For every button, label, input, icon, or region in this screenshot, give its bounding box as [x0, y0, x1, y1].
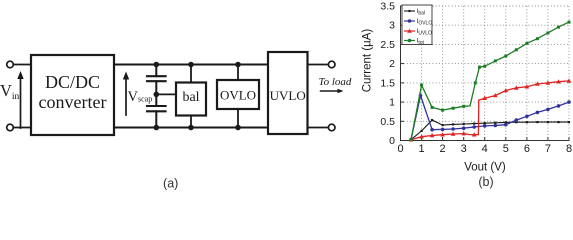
svg-text:4: 4	[482, 143, 488, 155]
svg-text:2: 2	[389, 58, 395, 70]
Vscap arrow	[125, 78, 127, 115]
svg-text:converter: converter	[39, 92, 107, 112]
svg-text:DC/DC: DC/DC	[45, 72, 100, 92]
node OVLO bottom	[235, 125, 241, 131]
svg-text:0.5: 0.5	[380, 116, 395, 128]
node OVLO top	[235, 62, 241, 68]
svg-text:1: 1	[389, 97, 395, 109]
svg-text:(b): (b)	[478, 175, 493, 189]
chart tick labels	[397, 143, 572, 155]
svg-text:(a): (a)	[163, 177, 178, 191]
wire bal stub top	[190, 65, 192, 83]
wire cap midpoint to bal	[156, 93, 176, 95]
svg-text:2.5: 2.5	[380, 39, 395, 51]
svg-text:Current (µA): Current (µA)	[362, 29, 374, 93]
chart axes	[400, 6, 402, 142]
wire output bottom	[308, 127, 328, 129]
curve I_tot (green)	[410, 21, 571, 142]
curve I_bal (black)	[411, 119, 570, 140]
wire OVLO stub bottom	[237, 109, 239, 128]
svg-text:5: 5	[503, 143, 509, 155]
wire OVLO stub top	[237, 65, 239, 81]
UVLO block	[268, 52, 308, 134]
bal block	[176, 83, 206, 116]
svg-text:3: 3	[389, 20, 395, 32]
svg-text:2: 2	[440, 143, 446, 155]
DC/DC converter block	[31, 55, 114, 135]
node cap bottom	[154, 125, 160, 131]
svg-text:6: 6	[524, 143, 530, 155]
svg-text:3: 3	[461, 143, 467, 155]
input terminal top	[7, 61, 14, 68]
node bal bottom	[188, 125, 194, 131]
node cap mid	[154, 92, 160, 98]
Vin arrow	[20, 78, 22, 129]
svg-text:7: 7	[545, 143, 551, 155]
node bal top	[188, 62, 194, 68]
capacitor C2 (bottom supercap)	[147, 105, 166, 107]
svg-text:Vscap: Vscap	[128, 89, 153, 105]
svg-text:3.5: 3.5	[380, 1, 395, 13]
input terminal bottom	[7, 124, 14, 131]
svg-text:To load: To load	[319, 76, 352, 88]
chart grid	[401, 6, 570, 141]
svg-text:0: 0	[397, 143, 403, 155]
svg-text:1: 1	[419, 143, 425, 155]
legend	[402, 5, 432, 46]
svg-text:Vin: Vin	[0, 81, 20, 102]
curve I_OVLO (blue)	[409, 94, 571, 142]
svg-text:8: 8	[566, 143, 572, 155]
To load arrow	[321, 90, 340, 92]
wire bal stub bottom	[190, 116, 192, 128]
svg-text:OVLO: OVLO	[220, 88, 256, 103]
svg-text:Vout (V): Vout (V)	[464, 162, 506, 174]
wire top rail	[114, 64, 268, 66]
wire input top	[14, 64, 30, 66]
node cap top	[154, 62, 160, 68]
capacitor C1 (top supercap)	[155, 65, 157, 77]
OVLO block	[217, 80, 259, 109]
curve I_UVLO (red)	[409, 78, 572, 141]
svg-text:1.5: 1.5	[380, 77, 395, 89]
output terminal top	[328, 61, 335, 68]
wire input bottom	[14, 127, 30, 129]
svg-text:UVLO: UVLO	[270, 88, 306, 103]
svg-text:bal: bal	[182, 90, 199, 105]
wire bottom rail	[114, 127, 268, 129]
output terminal bottom	[328, 124, 335, 131]
svg-text:0: 0	[389, 135, 395, 147]
wire output top	[308, 64, 328, 66]
